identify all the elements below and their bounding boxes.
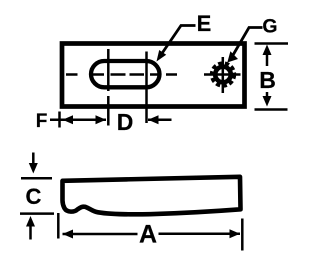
slot horizontal centerline (66, 73, 177, 76)
svg-text:B: B (259, 67, 276, 93)
svg-text:A: A (139, 221, 157, 249)
dimension C bottom arrow (26, 216, 35, 240)
dimension A line with arrows (63, 229, 241, 238)
dimension B extension line bottom (255, 108, 288, 111)
dimension C top arrow (29, 153, 38, 174)
dimension D right outside arrow (148, 115, 172, 124)
svg-text:G: G (262, 16, 277, 38)
dimension A left extension line (57, 213, 60, 239)
hole crosshair horizontal (204, 73, 241, 76)
top view outline (62, 44, 245, 107)
svg-text:F: F (36, 111, 48, 132)
slot left vertical centerline (107, 49, 110, 126)
dimension C extension line bottom (20, 212, 54, 215)
dimension A right extension line (241, 219, 244, 251)
dimension B arrows and line (263, 45, 272, 107)
slot E (obround) (91, 61, 160, 87)
side view outline (63, 177, 241, 215)
dimension F/D line with arrows (50, 115, 106, 124)
svg-text:E: E (197, 11, 212, 36)
hole crosshair vertical (222, 57, 225, 93)
leader G (227, 28, 262, 63)
dimension F tick (left extension) (58, 112, 61, 128)
dimension B extension line top (255, 42, 289, 45)
hole G (threaded hole) (212, 63, 234, 85)
svg-text:C: C (26, 184, 42, 209)
dimension C extension line top (21, 177, 52, 180)
leader E (157, 26, 196, 62)
svg-text:D: D (117, 109, 134, 135)
slot right vertical centerline (145, 52, 148, 124)
